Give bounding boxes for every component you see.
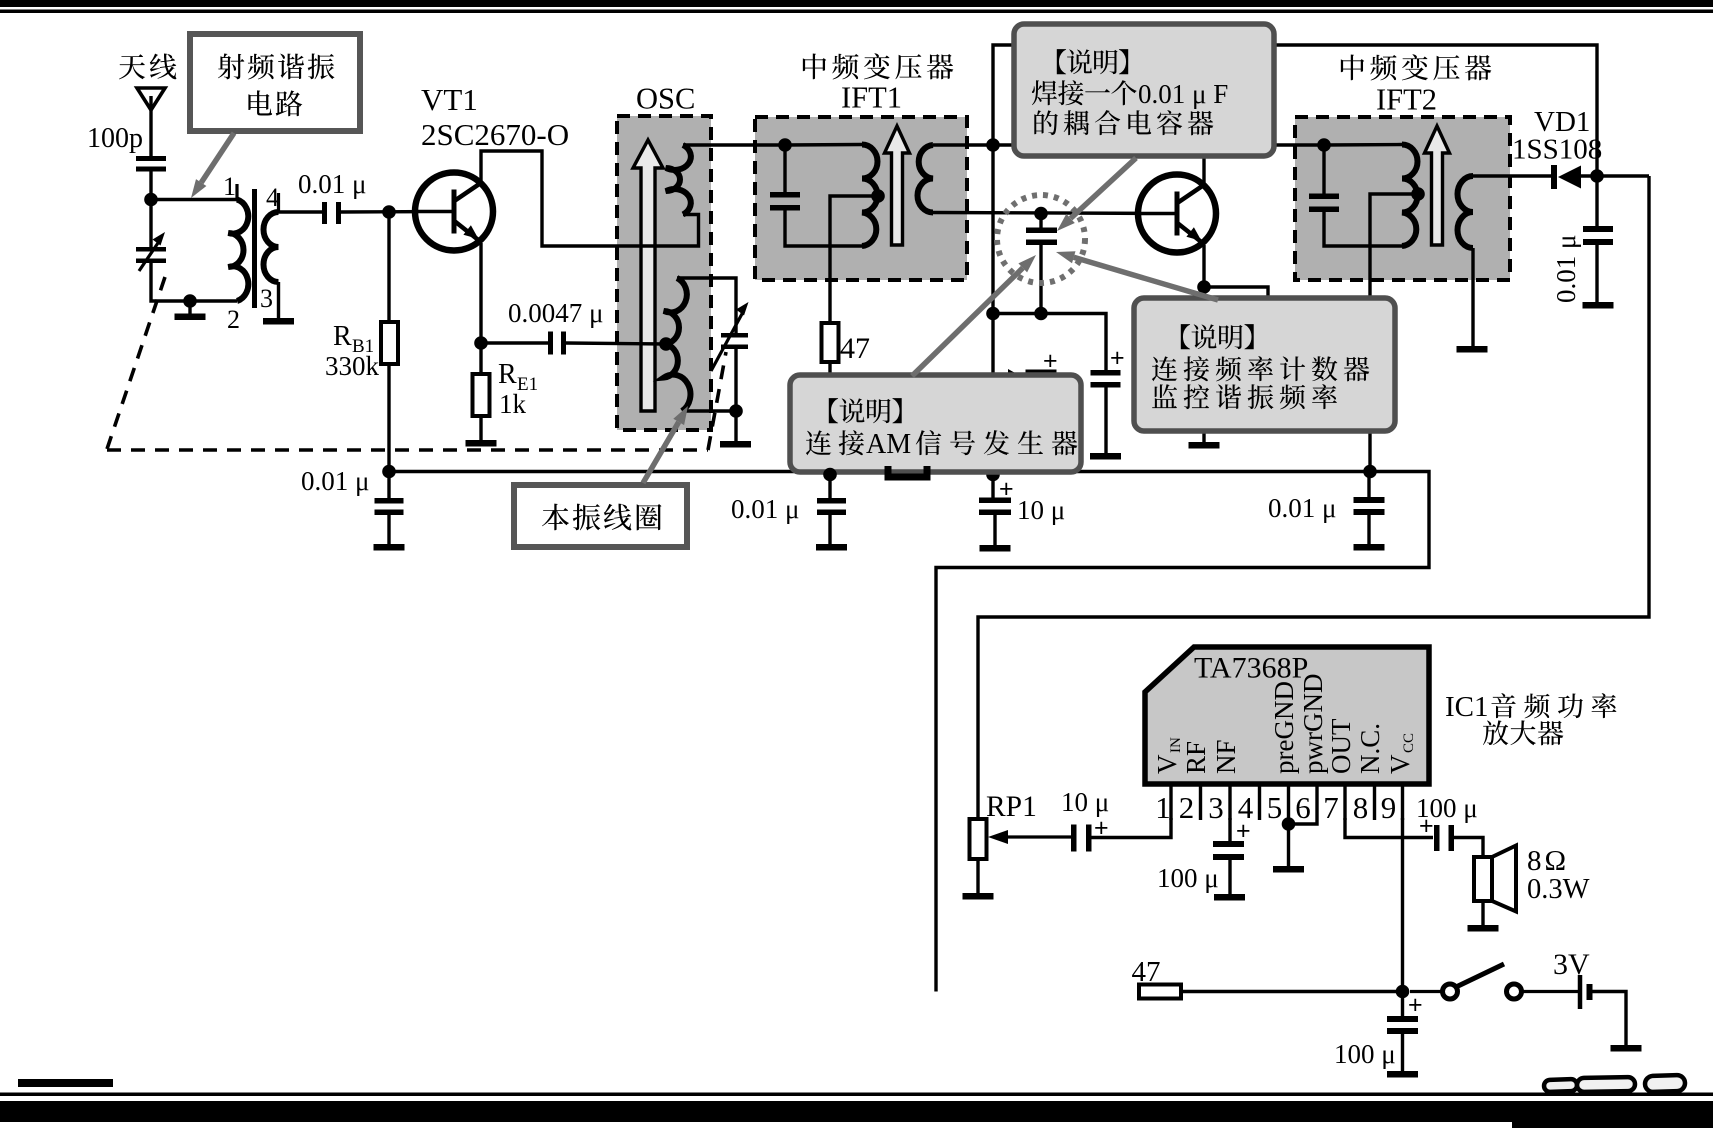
electrolytic capacitor 100u Vcc [1387, 991, 1423, 1078]
svg-text:+: + [1043, 347, 1058, 375]
svg-text:47: 47 [1132, 956, 1161, 988]
IC pin numbers [1155, 790, 1396, 825]
ground RP1 [963, 859, 994, 900]
node [1282, 817, 1296, 831]
pointer to antenna node [191, 133, 234, 198]
IC pin labels rotated [1152, 674, 1417, 775]
node [986, 307, 1000, 321]
IFT2 tuning arrow [1425, 126, 1450, 245]
transformer T1 core [252, 189, 257, 308]
capacitor 0.01u bypass (IFT1) [817, 472, 846, 545]
wire to pin1 [1091, 818, 1171, 838]
wire Vcc [1401, 818, 1404, 992]
injection arrow [1002, 369, 1017, 379]
resistor RE1 [473, 343, 490, 416]
ground IFT2 secondary [1457, 248, 1488, 353]
svg-text:preGND: preGND [1269, 681, 1299, 774]
speaker [1474, 846, 1516, 912]
OSC tuning arrow [633, 140, 663, 411]
label 0.01u [301, 466, 369, 496]
svg-text:0.01 μ F: 0.01 μ F [1138, 79, 1228, 109]
svg-text:V: V [1152, 754, 1182, 774]
wire [387, 212, 390, 322]
wire to speaker [1453, 838, 1483, 858]
svg-text:IFT1: IFT1 [841, 81, 902, 115]
antenna symbol [137, 88, 165, 156]
capacitor 0.01u base [322, 202, 341, 224]
label IC1 audio amp [1445, 691, 1616, 745]
svg-text:pwrGND: pwrGND [1298, 674, 1328, 775]
label 0.01u [731, 494, 799, 524]
svg-text:7: 7 [1323, 790, 1339, 825]
wire VT1 collector to OSC [481, 151, 699, 246]
svg-text:+: + [999, 475, 1014, 503]
electrolytic capacitor 10u input [1071, 814, 1109, 852]
svg-text:1k: 1k [499, 389, 527, 419]
wire [481, 341, 548, 344]
wire OSC top to IFT1 [683, 143, 785, 146]
electrolytic capacitor 10u [979, 474, 1014, 552]
ground VT2 (below note box) [1189, 431, 1220, 449]
wire [387, 364, 390, 472]
svg-text:CC: CC [1401, 733, 1417, 753]
note box: RF resonant circuit [190, 34, 360, 131]
node IFT2 tap [1411, 187, 1425, 201]
wire [993, 314, 1106, 371]
node rail detector [986, 468, 1000, 482]
wire preGND pwrGND [1289, 820, 1318, 866]
wire [149, 167, 152, 247]
svg-text:3: 3 [260, 284, 273, 313]
label antenna [119, 53, 176, 79]
svg-text:2: 2 [227, 305, 240, 334]
svg-text:V: V [1385, 754, 1415, 774]
diode VD1 [1551, 165, 1649, 189]
wire [566, 343, 666, 344]
svg-text:330k: 330k [325, 351, 380, 381]
signal wire IFT1 to IFT2 [993, 143, 1324, 146]
ground [175, 301, 206, 320]
svg-text:10 μ: 10 μ [1017, 495, 1065, 525]
label RE1 1k [498, 359, 538, 419]
node rail at AM box [823, 468, 837, 482]
wire [682, 349, 736, 412]
ground [1583, 302, 1614, 309]
capacitor 0.01u (right) [1354, 472, 1385, 545]
svg-text:0.0047 μ: 0.0047 μ [508, 298, 603, 328]
svg-text:OSC: OSC [636, 82, 695, 116]
transformer T1 secondary coil [264, 193, 279, 282]
svg-text:100p: 100p [87, 123, 143, 154]
node VT2 emitter [1197, 280, 1211, 294]
ground RE1 [466, 416, 497, 447]
wire [279, 210, 323, 213]
electrolytic capacitor 100u output [1419, 812, 1454, 851]
IFT1 secondary coil [917, 145, 933, 213]
pointer counter to coupling cap [1056, 251, 1218, 300]
OSC bottom coil (local oscillator) [664, 278, 690, 411]
pointer to coupling cap [1057, 158, 1136, 231]
label TA7368P [1194, 652, 1308, 685]
OSC top coil [666, 145, 691, 215]
oscillator coil block OSC [617, 116, 711, 430]
node Vcc [1396, 985, 1410, 999]
svg-text:RP1: RP1 [986, 791, 1037, 823]
potentiometer RP1 [970, 819, 1073, 859]
svg-text:+: + [1236, 817, 1251, 845]
ground [374, 544, 405, 551]
label 10u [1017, 495, 1065, 525]
node antenna [144, 193, 158, 207]
node rail RB1 [382, 465, 396, 479]
wire OSC coil top to trimmer [677, 278, 736, 334]
wire IFT2 top [1324, 143, 1402, 147]
note box: connect AM generator [790, 375, 1081, 472]
dotted highlight circle [997, 195, 1085, 283]
resistor 47 decoupling [1132, 956, 1182, 999]
svg-text:0.01 μ: 0.01 μ [301, 466, 369, 496]
note box: local oscillator coil [514, 485, 687, 547]
T1 pin labels [223, 172, 279, 334]
label 0.0047u [508, 298, 603, 328]
node [1034, 307, 1048, 321]
label 0.01u rotated [1551, 235, 1581, 303]
variable capacitor C1a [136, 232, 166, 271]
node IFT1 tap [871, 189, 885, 203]
capacitor 0.01u bypass (left) [375, 472, 404, 545]
svg-text:+: + [1110, 344, 1125, 372]
node OSC tap [659, 337, 673, 351]
label VT1 2SC2670-O [421, 82, 569, 152]
IF transformer block IFT1 [755, 117, 967, 280]
IFT1 primary coil [862, 145, 877, 247]
label 100u [1416, 793, 1478, 823]
ganged tuning dashed link [107, 277, 726, 450]
ground OSC [720, 411, 751, 448]
capacitor 0.0047u [548, 332, 566, 355]
page bottom border [0, 1079, 1713, 1128]
IF transformer block IFT2 [1295, 117, 1510, 280]
transistor VT1 [414, 173, 493, 251]
IFT2 secondary coil [1458, 176, 1474, 248]
wire IFT2 tap down to rail [1370, 194, 1418, 472]
capacitor 0.01u detector [1583, 176, 1613, 302]
label 0.01u [1268, 493, 1336, 523]
pebbles [1544, 1075, 1685, 1092]
wire OUT [1345, 818, 1433, 838]
svg-text:0.01 μ: 0.01 μ [298, 169, 366, 199]
svg-text:+: + [1408, 991, 1423, 1019]
svg-text:RF: RF [1181, 741, 1211, 774]
node IFT1 top [778, 138, 792, 152]
node OSC bottom [729, 404, 743, 418]
wire detector column [991, 145, 994, 472]
ground [1273, 866, 1304, 873]
label IFT2 [1341, 54, 1491, 116]
svg-text:4: 4 [266, 183, 279, 212]
hidden capacitor cup below AM box [888, 466, 927, 477]
node coupling cap top [1034, 207, 1048, 221]
label RB1 330k [325, 321, 380, 381]
svg-text:3V: 3V [1553, 948, 1590, 981]
svg-text:1SS108: 1SS108 [1512, 134, 1602, 166]
wire VT1 emitter [479, 243, 482, 343]
svg-text:2SC2670-O: 2SC2670-O [421, 117, 569, 152]
label IFT1 [803, 53, 953, 114]
transformer T1 primary coil [229, 184, 249, 301]
IFT2 primary coil [1402, 145, 1417, 247]
label 8ohm 0.3W [1527, 845, 1590, 905]
wire VT2 emitter [1204, 245, 1268, 300]
wire detector to RP1 [978, 176, 1649, 819]
svg-text:0.3W: 0.3W [1527, 874, 1590, 905]
label 100p [87, 123, 143, 154]
electrolytic capacitor 100u NF [1213, 817, 1251, 901]
svg-text:IFT2: IFT2 [1376, 83, 1437, 117]
svg-text:N.C.: N.C. [1355, 723, 1385, 774]
wire IFT2 secondary to diode [1473, 174, 1552, 177]
svg-text:AM: AM [866, 429, 911, 460]
soldered coupling capacitor 0.01uF [1026, 214, 1057, 314]
label VD1 1SS108 [1512, 106, 1602, 166]
svg-text:3: 3 [1208, 790, 1224, 825]
label 10u [1061, 787, 1109, 817]
svg-text:5: 5 [1267, 790, 1283, 825]
svg-text:1: 1 [1155, 790, 1171, 825]
node rail IFT2 [1363, 465, 1377, 479]
capacitor IFT1 resonant [770, 145, 800, 211]
ground battery [1611, 1045, 1642, 1052]
wire IFT1 top [785, 143, 862, 147]
battery 3V [1580, 975, 1626, 1045]
svg-text:100 μ: 100 μ [1334, 1039, 1396, 1069]
node VT1 emitter [474, 336, 488, 350]
svg-text:10 μ: 10 μ [1061, 787, 1109, 817]
svg-text:R: R [333, 321, 352, 352]
ground [1354, 544, 1385, 551]
resistor 47 [822, 323, 839, 362]
note box: frequency counter [1134, 298, 1395, 431]
ground speaker [1468, 901, 1499, 932]
label 100u [1334, 1039, 1396, 1069]
wire [151, 263, 237, 301]
node IFT2 top [1317, 138, 1331, 152]
node VT1 base [382, 205, 396, 219]
capacitor 100p [136, 156, 166, 172]
IFT1 tuning arrow [885, 126, 910, 245]
resistor RB1 [381, 322, 398, 364]
svg-text:100 μ: 100 μ [1157, 863, 1219, 893]
label 100u [1157, 863, 1219, 893]
svg-text:8: 8 [1353, 790, 1369, 825]
label OSC [636, 82, 695, 116]
ground bus wire [389, 472, 1429, 992]
wire IFT1 secondary top [933, 143, 993, 146]
svg-text:R: R [498, 359, 517, 390]
wire VT2 collector [1202, 145, 1205, 184]
label 3V [1553, 948, 1590, 981]
svg-text:2: 2 [1179, 790, 1195, 825]
wire [341, 210, 450, 214]
svg-text:9: 9 [1381, 790, 1397, 825]
svg-text:0.01 μ: 0.01 μ [1551, 235, 1581, 303]
electrolytic capacitor (right of hidden one) [1090, 344, 1125, 460]
page top border [0, 0, 1713, 13]
label 47 [840, 332, 870, 365]
svg-text:0.01 μ: 0.01 μ [1268, 493, 1336, 523]
electrolytic capacitor 10u (hidden) [1026, 347, 1058, 376]
node T1 bottom [183, 294, 197, 308]
capacitor IFT2 resonant [1309, 145, 1403, 246]
wire [828, 362, 831, 472]
node IFT1 out [986, 138, 1000, 152]
svg-text:1: 1 [223, 172, 236, 201]
svg-text:VT1: VT1 [421, 82, 478, 117]
IC1 TA7368P body [1145, 647, 1429, 784]
svg-text:8Ω: 8Ω [1527, 845, 1569, 877]
power switch [1410, 964, 1578, 999]
variable capacitor C1b [711, 302, 749, 371]
svg-text:OUT: OUT [1326, 718, 1356, 774]
wire IFT1 secondary to VT2 base [933, 213, 1175, 214]
svg-text:NF: NF [1211, 739, 1241, 774]
svg-text:0.01 μ: 0.01 μ [731, 494, 799, 524]
node detector out [1590, 169, 1604, 183]
AGC feedback wire [993, 45, 1597, 176]
svg-text:47: 47 [840, 332, 870, 365]
ground T1 secondary [263, 282, 294, 325]
transistor VT2 [1137, 175, 1216, 253]
note box: solder 0.01uF [1014, 24, 1274, 156]
IC pin stubs [1171, 784, 1403, 820]
wire IFT1 tap [830, 196, 878, 323]
pointer to OSC coil [643, 406, 688, 483]
svg-text:IC1: IC1 [1445, 691, 1489, 723]
svg-text:6: 6 [1295, 790, 1311, 825]
label RP1 [986, 791, 1037, 823]
wire [1181, 990, 1403, 993]
svg-text:TA7368P: TA7368P [1194, 652, 1308, 685]
wire [785, 211, 863, 247]
wire [151, 198, 237, 201]
label 0.01u [298, 169, 366, 199]
ground [816, 544, 847, 551]
pointer AM to coupling cap [912, 255, 1036, 376]
svg-text:100 μ: 100 μ [1416, 793, 1478, 823]
